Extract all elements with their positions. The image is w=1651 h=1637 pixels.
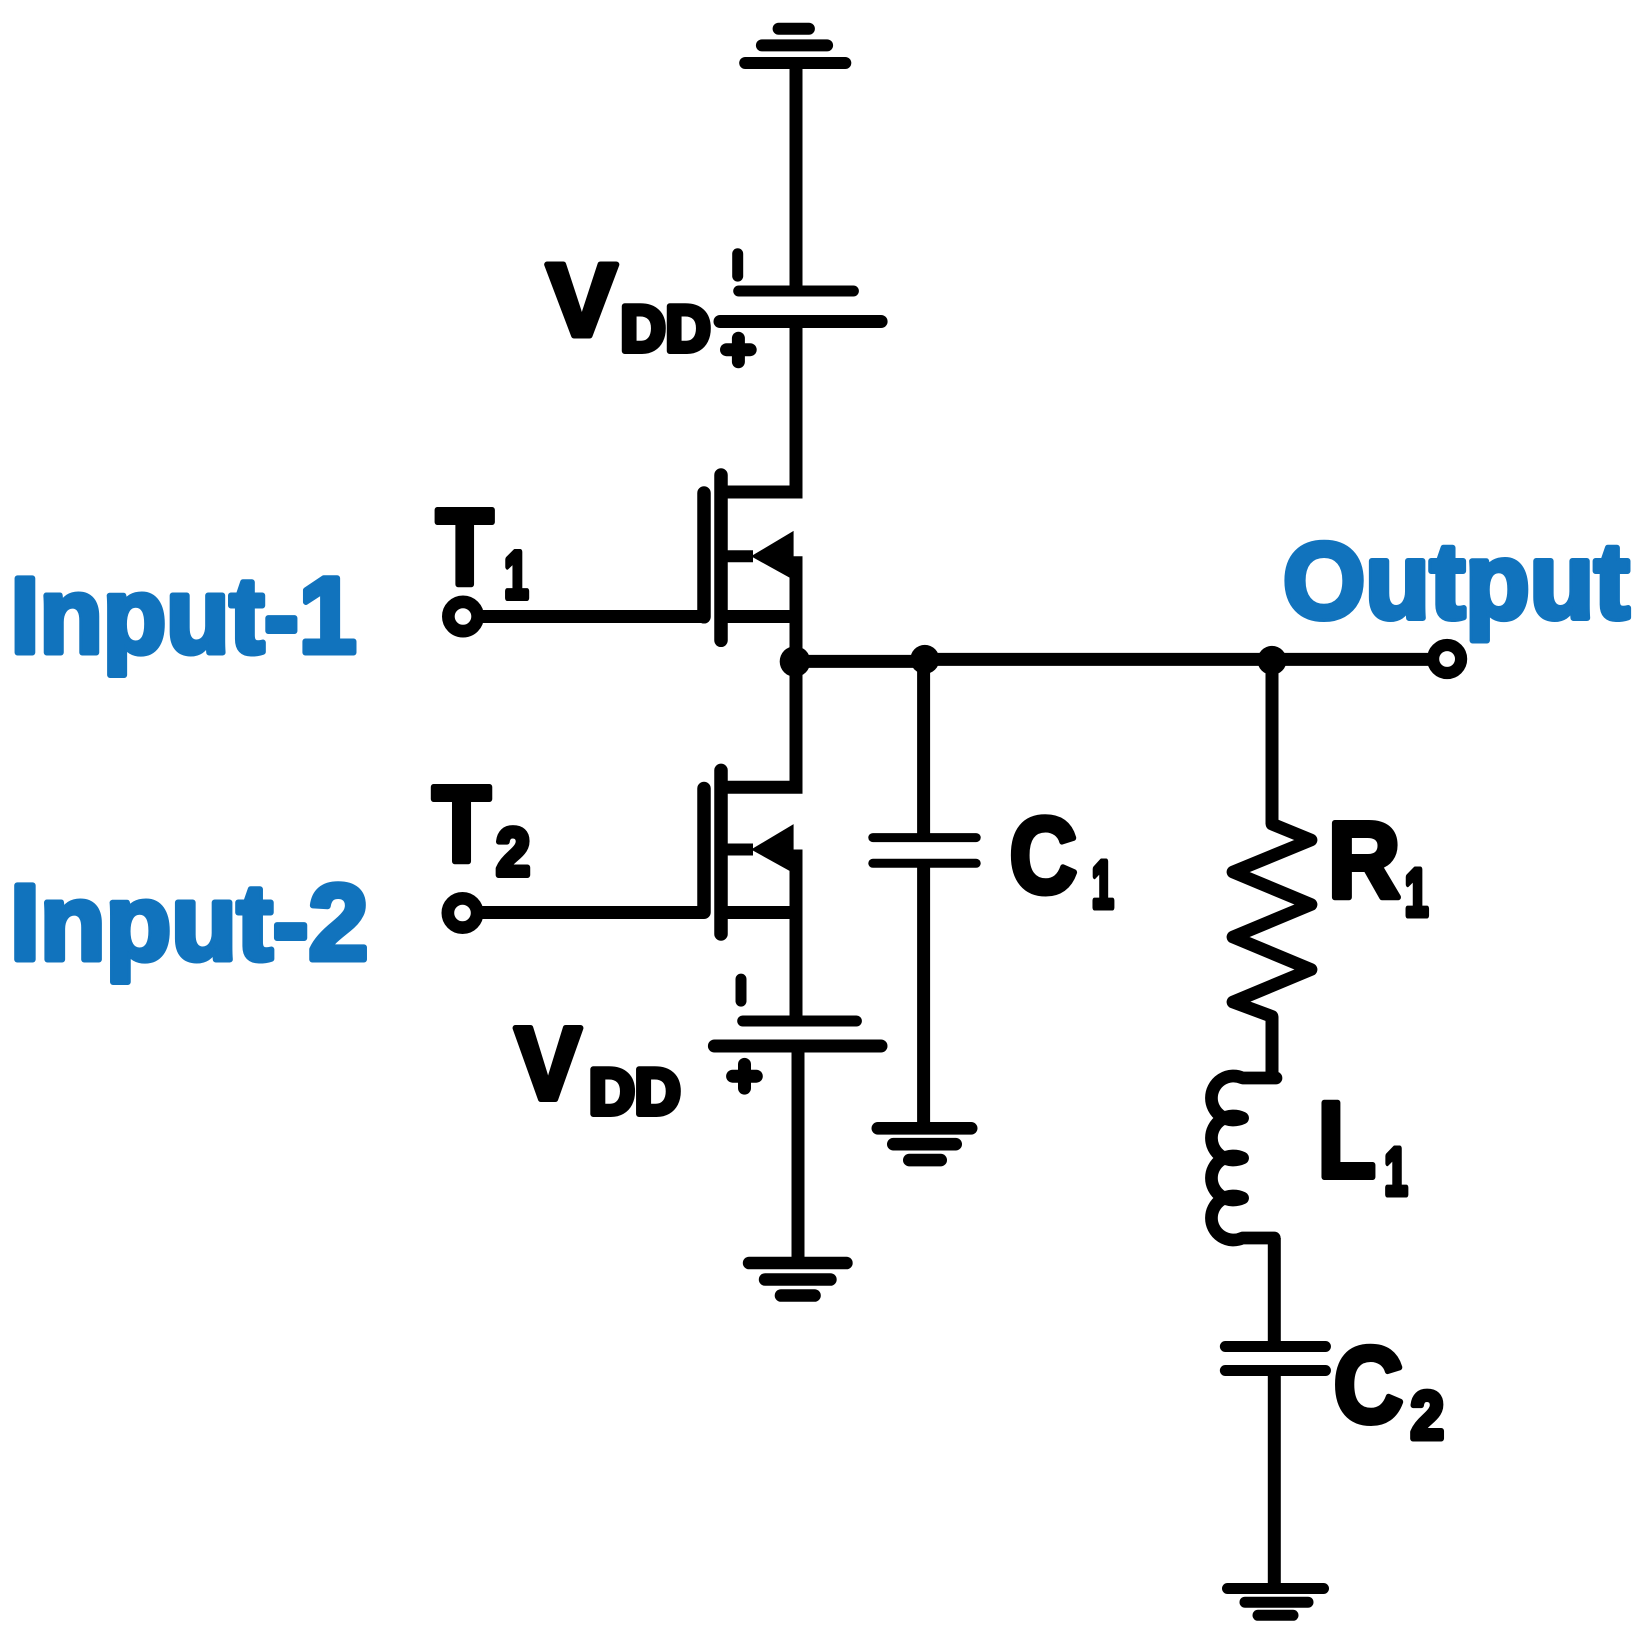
wire: Input-2 to T2 gate: [479, 906, 704, 919]
svg-text:Input-1: Input-1: [11, 554, 357, 675]
transistor T1: gate bar, channel bar, bulk arrow, source lead: [704, 475, 796, 661]
ground GND2 (below battery B2): [749, 1263, 846, 1296]
svg-text:DD: DD: [589, 1056, 681, 1128]
resistor R1: [1233, 824, 1311, 1017]
svg-text:T: T: [436, 486, 493, 607]
svg-text:1: 1: [1092, 847, 1114, 922]
svg-text:2: 2: [496, 815, 530, 890]
svg-text:R: R: [1328, 799, 1400, 920]
svg-text:1: 1: [1384, 1134, 1407, 1209]
svg-text:V: V: [515, 1006, 582, 1121]
ground GND3 (below C1): [878, 1128, 971, 1160]
wire: Input-1 to T1 gate: [480, 610, 704, 623]
inductor L1: [1211, 1076, 1276, 1240]
node C: R1 tap: [1258, 646, 1287, 675]
svg-text:C: C: [1010, 795, 1077, 916]
svg-text:DD: DD: [621, 293, 711, 365]
wire: battery B1 to T1 drain: [721, 322, 796, 493]
svg-text:V: V: [547, 243, 618, 358]
svg-text:2: 2: [1411, 1378, 1444, 1453]
wire: C1 to GND3: [917, 863, 930, 1128]
wire: node B to C1: [917, 659, 930, 837]
battery B1 VDD (top): minus tick, plates, plus: [720, 254, 881, 362]
wire: node A to T2 drain: [721, 661, 796, 787]
terminal Output: [1433, 645, 1461, 673]
wire: L1 to C2: [1268, 1238, 1281, 1347]
node A: T1 source / T2 drain junction: [780, 646, 811, 677]
battery B2 VDD (bottom): minus tick, plates, plus: [714, 979, 881, 1088]
wire: output net (node B to Output terminal): [924, 653, 1429, 666]
wire: node C to R1: [1266, 660, 1279, 824]
node B: C1 tap: [910, 645, 939, 674]
transistor T2: gate bar, channel bar, bulk arrow, source lead: [704, 770, 796, 1021]
svg-text:1: 1: [504, 538, 528, 613]
ground GND1 (top, inverted): [745, 29, 845, 63]
svg-text:C: C: [1334, 1324, 1403, 1445]
capacitor C1: [873, 838, 976, 864]
wire: R1 to L1: [1266, 1017, 1279, 1079]
wire: output net (node A to node B): [795, 655, 928, 668]
wire: battery B2 to GND2: [792, 1046, 805, 1263]
svg-text:Output: Output: [1283, 520, 1630, 641]
capacitor C2: [1225, 1347, 1325, 1371]
wire: GND1 to battery B1: [790, 63, 803, 287]
svg-text:Input-2: Input-2: [10, 861, 368, 982]
wire: C2 to GND4: [1268, 1371, 1281, 1589]
ground GND4 (below C2): [1228, 1589, 1324, 1616]
terminal Input-2: [448, 898, 477, 927]
svg-text:L: L: [1318, 1079, 1376, 1200]
terminal Input-1: [448, 602, 477, 631]
svg-text:T: T: [432, 763, 490, 884]
svg-text:1: 1: [1405, 856, 1429, 931]
